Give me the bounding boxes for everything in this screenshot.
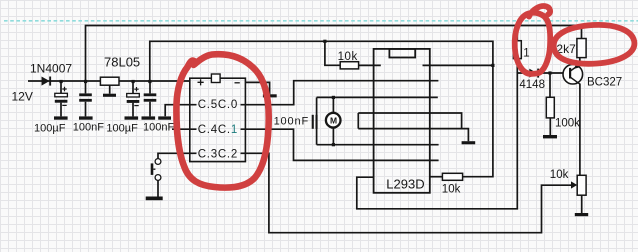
wire motor terminals [332,97,334,144]
pot wiper arrow [571,181,577,188]
svg-text:100nF: 100nF [143,121,174,133]
transistor Q1 BC327 [563,64,583,85]
svg-text:78L05: 78L05 [104,55,140,70]
svg-text:100k: 100k [555,118,580,130]
resistor R 1 [513,41,521,59]
resistor 10k feedback [442,173,462,180]
svg-text:100µF: 100µF [106,123,138,135]
IC U3 L293D box [374,49,430,193]
wire base node to 100k [549,73,551,97]
wire 2k7 bottom to emitter [579,58,581,66]
svg-text:C.3C.2: C.3C.2 [198,148,238,160]
svg-text:10k: 10k [550,169,569,181]
red annotation loop around R 1 [515,6,551,74]
ground C.5C.0 pin [158,116,171,119]
wire 10k pullup left [325,41,340,65]
svg-text:100nF: 100nF [73,121,104,133]
ground C4 [142,116,156,119]
capacitor C2 100nF [79,81,92,116]
wire collector down to pot [579,84,581,176]
wire L293D pin to 10k right [430,176,443,178]
potentiometer 10k [577,175,586,195]
svg-text:12V: 12V [12,89,33,103]
wire 10k pullup right to L293D pin [359,64,381,66]
resistor 100k [546,97,554,118]
capacitor C1 100uF electrolytic [55,81,68,116]
wire L293D enable to ground [358,129,468,142]
wire IC1 C.4C.1 left stub [172,128,197,130]
wire L293D bottom pin loop to diode node [357,59,518,209]
resistor 2k7 [577,39,586,58]
wire 1 resistor top [516,26,518,41]
IC U1 box [190,78,246,161]
IC U3 notch [389,49,415,58]
ground C2 [79,116,93,119]
diode D1 1N4007 [42,77,52,86]
wire IC1 C.3C.2 left pin to button [158,153,197,158]
IC U1 notch [211,74,220,83]
svg-text:100µF: 100µF [34,123,66,135]
svg-text:1: 1 [523,47,529,59]
svg-text:1N4007: 1N4007 [30,62,72,76]
dashed cyan guide line [4,20,638,22]
wire motor top rail [317,96,438,98]
ground pot [575,213,588,216]
ground L293D enable [462,141,476,144]
ground button [146,197,163,201]
capacitor C4 100nF [144,81,157,116]
IC U1 minus mark [235,82,240,84]
wire L293D enable pins pair [358,113,461,129]
ground C3 [125,116,139,119]
wire 100k to ground [549,118,551,135]
wire L293D right pin to 5V riser [423,64,493,66]
wire C.4C.1 to L293D input [241,129,439,160]
wire diode 4148 row [517,72,564,74]
capacitor C3 100uF electrolytic [127,81,140,116]
motor suppression capacitor 100nF plates [312,115,314,129]
ground C1 [54,116,68,119]
svg-text:4148: 4148 [519,79,545,91]
wire C.3C.2 to pot wiper [241,153,572,232]
wire pot to ground [581,195,583,213]
svg-text:10k: 10k [338,51,358,63]
motor M1 [326,112,341,129]
svg-text:BC327: BC327 [587,77,622,89]
svg-text:100nF: 100nF [274,116,309,128]
wire 12V top rail [86,26,582,82]
wire 12V main rail [28,80,190,82]
svg-text:10k: 10k [442,184,461,196]
ground 100k [543,135,557,138]
resistor 10k pullup [340,62,358,69]
wire C.5C.0 to L293D input [241,81,439,105]
wire motor bottom rail [317,144,439,146]
IC U1 plus mark [198,79,204,85]
svg-text:L293D: L293D [386,177,424,192]
diode D2 4148 [529,69,539,78]
svg-text:M: M [330,115,337,125]
wire IC1 minus pin to ground [245,82,269,94]
wire 5V rail [150,41,493,176]
svg-text:C.4C.1: C.4C.1 [198,124,238,136]
voltage regulator U2 78L05 [100,77,119,97]
push button S1 [152,159,161,181]
wire IC1 C.5C.0 left pin to ground [165,105,196,117]
ground IC1 minus [263,94,277,97]
motor frame left vertical [316,97,318,144]
red annotation loop around 2k7 [553,23,635,65]
wire button to ground [157,180,159,196]
svg-text:C.5C.0: C.5C.0 [198,99,238,111]
red annotation loop around IC U1 [176,54,268,187]
